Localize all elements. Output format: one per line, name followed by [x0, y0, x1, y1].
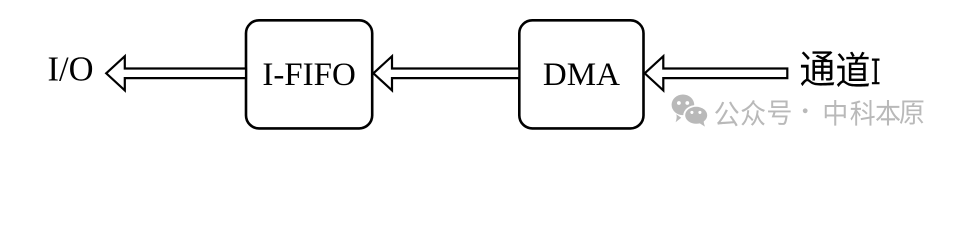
svg-text:DMA: DMA: [543, 57, 620, 93]
block DMA: [519, 20, 643, 128]
svg-text:I-FIFO: I-FIFO: [262, 57, 356, 93]
block I-FIFO: [246, 20, 372, 128]
svg-text:I/O: I/O: [48, 51, 94, 89]
arrow I-FIFO to I/O: [106, 56, 246, 90]
arrow channel I to DMA: [645, 56, 788, 90]
watermark wechat icon: [672, 95, 709, 127]
arrow DMA to I-FIFO: [373, 56, 519, 90]
watermark text 公众号 · 中科本原: [715, 100, 923, 126]
label channel I (通道I): [801, 51, 880, 87]
